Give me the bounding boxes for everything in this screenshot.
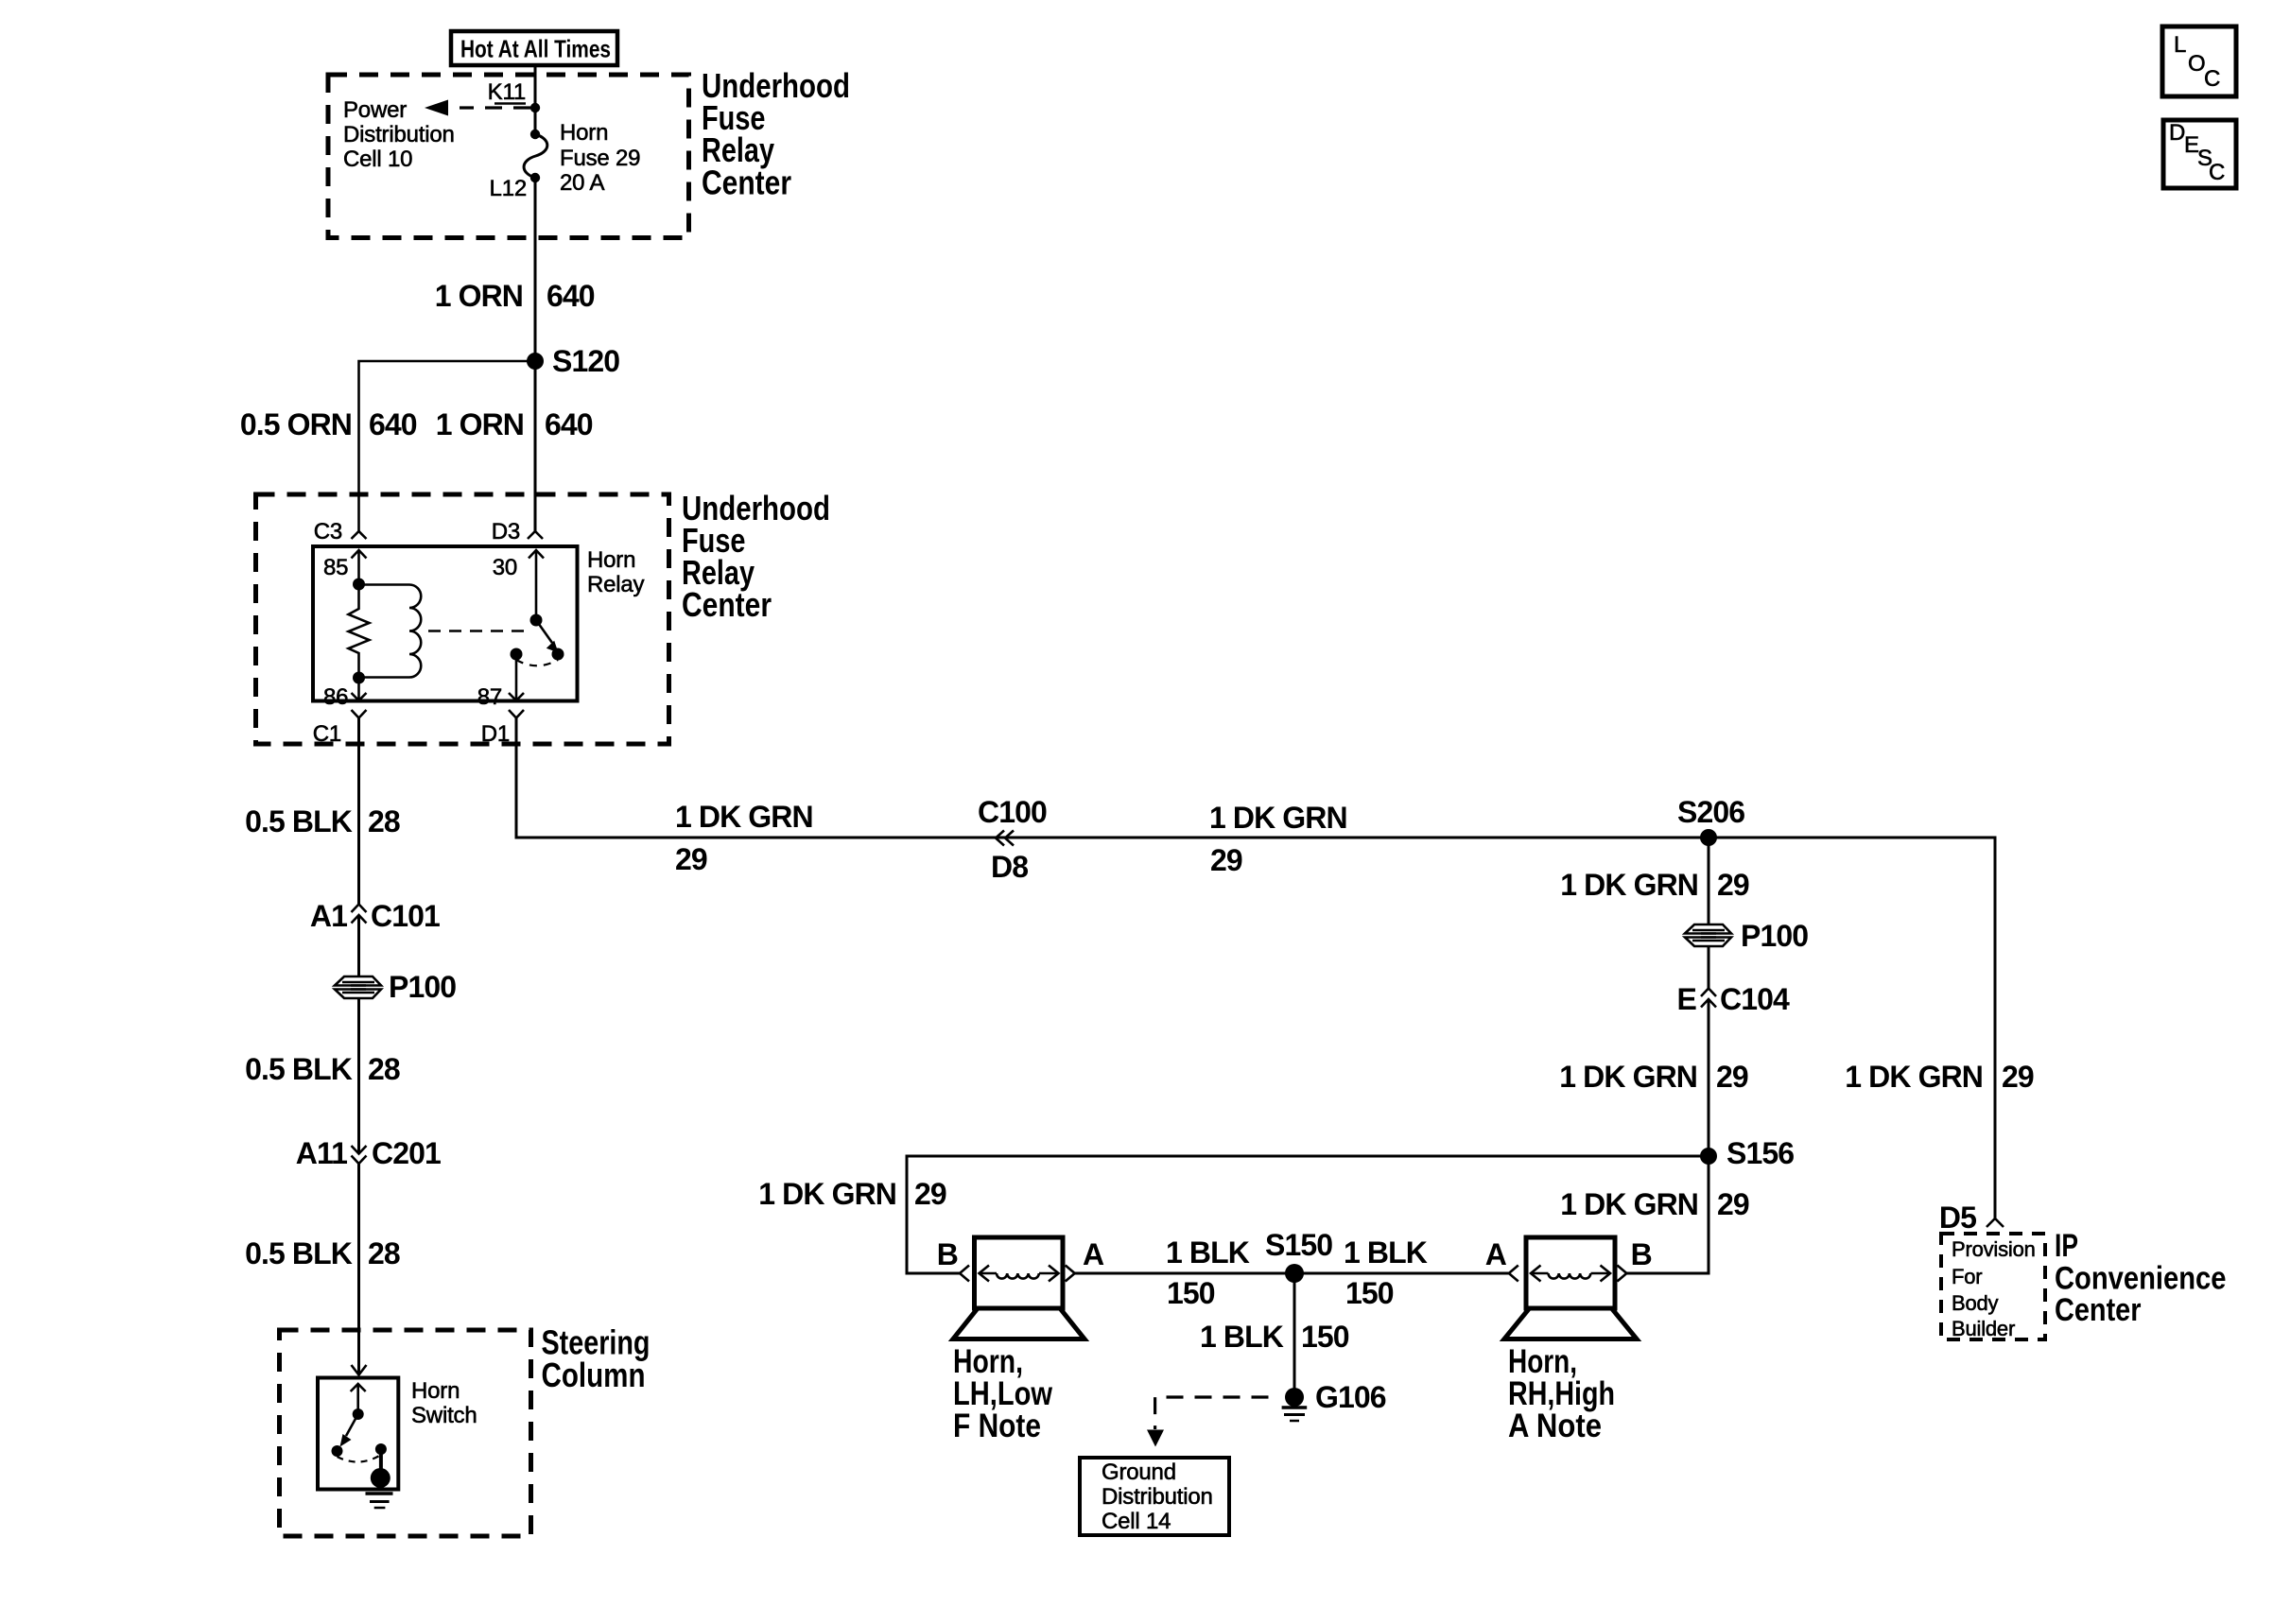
svg-text:A1: A1 bbox=[310, 899, 347, 933]
underhood fuse relay center (relay) dashed box bbox=[256, 494, 669, 744]
svg-text:85: 85 bbox=[323, 555, 348, 580]
wire fuse to S120 bbox=[534, 178, 537, 361]
svg-text:S156: S156 bbox=[1726, 1136, 1794, 1170]
pin 87 arrow bbox=[477, 654, 524, 710]
svg-text:Hot At All Times: Hot At All Times bbox=[460, 35, 611, 63]
label "Underhood Fuse Relay Center" (relay) bbox=[682, 489, 830, 624]
svg-text:1 DK GRN: 1 DK GRN bbox=[1560, 1187, 1698, 1221]
connector C101 pin A1 bbox=[310, 899, 440, 933]
connector D5 at IP convenience center bbox=[1939, 1201, 2004, 1235]
svg-text:640: 640 bbox=[547, 279, 595, 313]
svg-text:G106: G106 bbox=[1315, 1380, 1386, 1414]
svg-text:29: 29 bbox=[1717, 1187, 1749, 1221]
label "Horn, LH,Low F Note" bbox=[953, 1343, 1053, 1444]
svg-text:D: D bbox=[2169, 120, 2185, 146]
svg-text:20 A: 20 A bbox=[560, 170, 604, 196]
svg-text:1 BLK: 1 BLK bbox=[1166, 1235, 1250, 1270]
svg-text:P100: P100 bbox=[1741, 919, 1808, 953]
connector C100 pin D8 (inline double chevron) bbox=[978, 795, 1047, 884]
wire label 0.5 BLK 28 (first) bbox=[245, 804, 400, 838]
svg-text:S150: S150 bbox=[1265, 1228, 1332, 1262]
label "Power Distribution Cell 10" bbox=[343, 97, 455, 172]
svg-text:A11: A11 bbox=[296, 1136, 347, 1170]
horn switch input arrow bbox=[351, 1384, 366, 1420]
node K11 bbox=[530, 103, 540, 112]
connector C104 pin E bbox=[1677, 982, 1790, 1016]
svg-text:L: L bbox=[2174, 32, 2186, 58]
dashed reference from G106 to ground distribution bbox=[1147, 1397, 1269, 1447]
svg-text:1 BLK: 1 BLK bbox=[1200, 1320, 1284, 1354]
LOC reference box bbox=[2162, 26, 2236, 96]
wire label 0.5 ORN 640 bbox=[240, 407, 417, 441]
svg-text:Fuse 29: Fuse 29 bbox=[560, 146, 640, 171]
svg-text:640: 640 bbox=[369, 407, 417, 441]
svg-text:Distribution: Distribution bbox=[343, 122, 455, 147]
svg-text:1 DK GRN: 1 DK GRN bbox=[1209, 801, 1347, 835]
pin label K11 (underlined) bbox=[488, 79, 526, 105]
svg-text:Horn: Horn bbox=[411, 1378, 460, 1404]
svg-text:86: 86 bbox=[323, 684, 348, 710]
svg-text:Power: Power bbox=[343, 97, 407, 123]
svg-text:S120: S120 bbox=[552, 344, 619, 378]
svg-text:Center: Center bbox=[682, 585, 772, 624]
ground at horn switch bbox=[366, 1468, 393, 1508]
svg-text:Horn: Horn bbox=[587, 547, 635, 573]
wire C1 down to connector C101 bbox=[357, 718, 360, 905]
wire label 1 ORN 640 bbox=[435, 279, 595, 313]
svg-text:B: B bbox=[1631, 1237, 1652, 1271]
svg-text:29: 29 bbox=[2002, 1060, 2034, 1094]
switch blade (relay contact arm) bbox=[530, 614, 559, 653]
svg-text:D1: D1 bbox=[481, 721, 510, 747]
svg-text:C: C bbox=[2204, 66, 2220, 92]
svg-text:0.5 BLK: 0.5 BLK bbox=[245, 804, 353, 838]
svg-text:Switch: Switch bbox=[411, 1403, 477, 1428]
svg-text:C100: C100 bbox=[978, 795, 1047, 829]
svg-text:Horn: Horn bbox=[560, 120, 608, 146]
svg-text:Distribution: Distribution bbox=[1102, 1484, 1213, 1510]
svg-text:A Note: A Note bbox=[1508, 1408, 1602, 1444]
wire C101 to P100 bbox=[357, 915, 360, 976]
svg-text:D3: D3 bbox=[492, 519, 520, 544]
horn switch box S1 bbox=[318, 1378, 398, 1490]
svg-text:29: 29 bbox=[914, 1177, 946, 1211]
svg-text:0.5 BLK: 0.5 BLK bbox=[245, 1052, 353, 1086]
svg-text:28: 28 bbox=[368, 1236, 400, 1270]
wire P100 to C201 bbox=[357, 998, 360, 1153]
svg-text:C101: C101 bbox=[371, 899, 440, 933]
connector C3 bbox=[314, 519, 367, 544]
horn LH low F note bbox=[937, 1237, 1104, 1339]
pin 86 arrow bbox=[323, 678, 367, 710]
dashed arrow to Power Distribution Cell 10 bbox=[425, 100, 530, 116]
pin 30 arrow bbox=[493, 550, 544, 620]
svg-text:F Note: F Note bbox=[953, 1408, 1041, 1444]
svg-text:Builder: Builder bbox=[1952, 1317, 2015, 1340]
svg-text:K11: K11 bbox=[488, 79, 526, 105]
svg-text:D8: D8 bbox=[991, 850, 1028, 884]
svg-text:IP: IP bbox=[2055, 1228, 2078, 1264]
svg-text:A: A bbox=[1485, 1237, 1507, 1271]
svg-text:D5: D5 bbox=[1939, 1201, 1976, 1235]
steering column dashed box bbox=[280, 1330, 531, 1536]
label "Provision For Body Builder" bbox=[1952, 1237, 2036, 1340]
label "Horn Fuse 29 20 A" bbox=[560, 120, 640, 196]
svg-text:1 DK GRN: 1 DK GRN bbox=[1845, 1060, 1983, 1094]
underhood fuse relay center (power) dashed box bbox=[328, 75, 689, 238]
wire label 1 DK GRN 29 (left segment) bbox=[675, 800, 813, 876]
svg-text:150: 150 bbox=[1167, 1276, 1215, 1310]
svg-text:1 ORN: 1 ORN bbox=[436, 407, 524, 441]
wire label 0.5 BLK 28 (third) bbox=[245, 1236, 400, 1270]
wire label 1 DK GRN 29 (above S156) bbox=[1559, 1060, 1748, 1094]
svg-text:30: 30 bbox=[493, 555, 517, 580]
wire label 1 BLK 150 (left) bbox=[1166, 1235, 1250, 1310]
connector D3 bbox=[492, 519, 543, 544]
node S120 bbox=[527, 344, 619, 378]
provision for body builder dashed box bbox=[1941, 1234, 2045, 1339]
svg-text:C201: C201 bbox=[372, 1136, 441, 1170]
svg-text:Relay: Relay bbox=[587, 572, 645, 597]
wire S156 left branch down to left horn bbox=[907, 1156, 1709, 1273]
grommet P100 (right) bbox=[1685, 919, 1808, 953]
svg-text:P100: P100 bbox=[389, 970, 456, 1004]
svg-text:Convenience: Convenience bbox=[2055, 1261, 2227, 1297]
svg-text:150: 150 bbox=[1345, 1276, 1394, 1310]
connector C1 bbox=[313, 710, 367, 747]
svg-text:For: For bbox=[1952, 1265, 1982, 1288]
wire label 1 DK GRN 29 (right drop) bbox=[1845, 1060, 2034, 1094]
wire label 1 ORN 640 (second) bbox=[436, 407, 593, 441]
wire D1 down and main horizontal run to S206 and right corner bbox=[516, 718, 1995, 1219]
svg-text:C1: C1 bbox=[313, 721, 341, 747]
dashed contact travel arc bbox=[516, 660, 558, 665]
label "Horn Relay" bbox=[587, 547, 645, 597]
svg-text:1 DK GRN: 1 DK GRN bbox=[675, 800, 813, 834]
svg-text:E: E bbox=[1677, 982, 1697, 1016]
svg-text:1 ORN: 1 ORN bbox=[435, 279, 523, 313]
label "Horn, RH,High A Note" bbox=[1508, 1343, 1615, 1444]
svg-text:C104: C104 bbox=[1720, 982, 1790, 1016]
wire S120 down to relay D3 bbox=[534, 361, 537, 531]
svg-text:Center: Center bbox=[702, 164, 791, 202]
svg-text:1 DK GRN: 1 DK GRN bbox=[1560, 868, 1698, 902]
svg-text:C3: C3 bbox=[314, 519, 342, 544]
horn switch blade bbox=[340, 1414, 358, 1447]
wire label 1 BLK 150 (ground drop) bbox=[1200, 1320, 1349, 1354]
connector Y into horn switch bbox=[352, 1365, 367, 1375]
ground distribution cell 14 box bbox=[1080, 1458, 1229, 1535]
wire label 1 DK GRN 29 (mid segment) bbox=[1209, 801, 1347, 877]
wire S150 down to G106 bbox=[1293, 1273, 1296, 1397]
node S150 bbox=[1265, 1228, 1332, 1283]
node S156 bbox=[1700, 1136, 1794, 1170]
svg-text:O: O bbox=[2188, 51, 2205, 77]
wire C201 to horn switch bbox=[357, 1164, 360, 1375]
svg-text:Column: Column bbox=[542, 1356, 646, 1394]
connector C201 pin A11 bbox=[296, 1136, 441, 1170]
label "Steering Column" bbox=[542, 1323, 651, 1395]
wire label 1 DK GRN 29 (to left horn) bbox=[758, 1177, 946, 1211]
svg-text:1 BLK: 1 BLK bbox=[1344, 1235, 1428, 1270]
wire S120 branch left bbox=[359, 361, 536, 531]
svg-text:Provision: Provision bbox=[1952, 1237, 2036, 1261]
svg-text:1 DK GRN: 1 DK GRN bbox=[758, 1177, 896, 1211]
svg-text:Center: Center bbox=[2055, 1292, 2142, 1328]
svg-text:Ground: Ground bbox=[1102, 1460, 1176, 1485]
wire label 0.5 BLK 28 (second) bbox=[245, 1052, 400, 1086]
svg-text:640: 640 bbox=[545, 407, 593, 441]
svg-text:29: 29 bbox=[1717, 868, 1749, 902]
label "Underhood Fuse Relay Center" (top) bbox=[702, 66, 850, 202]
wire from Hot At All Times to fuse bbox=[534, 65, 537, 134]
svg-text:0.5 ORN: 0.5 ORN bbox=[240, 407, 352, 441]
svg-text:29: 29 bbox=[675, 842, 707, 876]
dashed actuation link bbox=[428, 630, 530, 632]
contact dots 87 and 87a bbox=[511, 648, 564, 661]
svg-text:0.5 BLK: 0.5 BLK bbox=[245, 1236, 353, 1270]
svg-text:28: 28 bbox=[368, 1052, 400, 1086]
pin 85 arrow bbox=[323, 550, 367, 591]
wire C104 down to S156 bbox=[1708, 999, 1710, 1156]
svg-text:28: 28 bbox=[368, 804, 400, 838]
wire S156 down to right horn bbox=[1626, 1156, 1709, 1273]
svg-text:Cell 14: Cell 14 bbox=[1102, 1509, 1171, 1534]
wire label 1 BLK 150 (right) bbox=[1344, 1235, 1428, 1310]
resistor (relay coil suppression) bbox=[349, 584, 370, 678]
wire label 1 DK GRN 29 (above P100 right) bbox=[1560, 868, 1749, 902]
horn switch contacts bbox=[332, 1443, 387, 1477]
fuse F29 (Horn Fuse 29 20 A) bbox=[524, 130, 547, 182]
DESC reference box bbox=[2163, 120, 2236, 188]
coil (relay winding) L1 bbox=[359, 585, 422, 678]
label box "Hot At All Times" bbox=[451, 31, 617, 65]
grommet P100 (left) bbox=[335, 970, 456, 1004]
label "Horn Switch" bbox=[411, 1378, 477, 1428]
svg-text:C: C bbox=[2209, 160, 2225, 185]
wire P100 to C104 bbox=[1708, 946, 1710, 989]
svg-text:B: B bbox=[937, 1237, 958, 1271]
horn RH high A note bbox=[1485, 1237, 1652, 1339]
svg-text:87: 87 bbox=[477, 684, 502, 710]
svg-text:1 DK GRN: 1 DK GRN bbox=[1559, 1060, 1697, 1094]
label "IP Convenience Center" bbox=[2055, 1228, 2227, 1328]
pin 86 node dot bbox=[353, 672, 365, 684]
svg-text:150: 150 bbox=[1301, 1320, 1349, 1354]
svg-text:29: 29 bbox=[1716, 1060, 1748, 1094]
connector D1 bbox=[481, 710, 524, 747]
svg-text:A: A bbox=[1083, 1237, 1104, 1271]
wire S150 to right horn pin A bbox=[1294, 1272, 1509, 1275]
svg-text:L12: L12 bbox=[490, 176, 527, 201]
svg-text:Cell 10: Cell 10 bbox=[343, 147, 412, 172]
svg-text:29: 29 bbox=[1210, 843, 1242, 877]
ground G106 bbox=[1282, 1380, 1386, 1421]
node S206 bbox=[1677, 795, 1744, 846]
wire S206 down to P100 bbox=[1708, 838, 1710, 924]
wire label 1 DK GRN 29 (above right horn) bbox=[1560, 1187, 1749, 1221]
wire horn LH pin A to S150 bbox=[1075, 1272, 1294, 1275]
horn relay box U1 bbox=[313, 546, 578, 701]
svg-text:S206: S206 bbox=[1677, 795, 1744, 829]
svg-text:Body: Body bbox=[1952, 1291, 1999, 1315]
